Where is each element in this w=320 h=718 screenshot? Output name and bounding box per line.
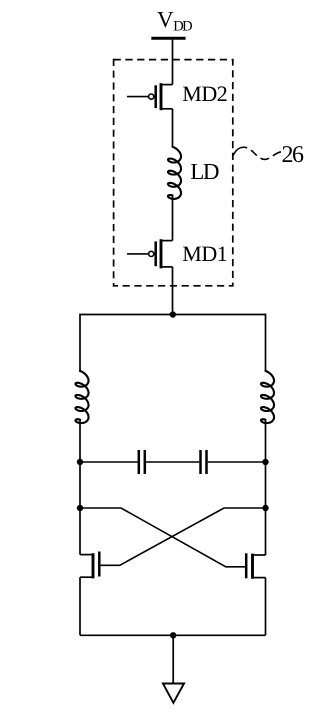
svg-text:LD: LD — [190, 159, 219, 184]
power supply bar VDD — [151, 37, 185, 40]
transistor MD1 (PMOS) — [127, 239, 173, 268]
ground — [163, 684, 184, 703]
wire MD1 drain to node A — [172, 267, 174, 315]
inductor L1 (left) — [76, 371, 89, 423]
svg-text:V: V — [157, 7, 174, 32]
wire top rail — [80, 314, 266, 316]
node left cap rail — [77, 459, 83, 465]
svg-text:26: 26 — [282, 142, 305, 168]
wire cap rail right segment — [208, 461, 266, 463]
wire MD2 drain to LD — [172, 109, 174, 147]
wire VDD to MD2 source — [172, 38, 174, 84]
wire left branch middle — [79, 420, 81, 555]
leader squiggle to label 26 — [233, 147, 281, 159]
capacitor C1 — [139, 450, 145, 474]
wire right branch lower — [265, 578, 267, 636]
node left cross rail — [77, 505, 83, 511]
wire left branch upper — [79, 314, 81, 372]
inductor L2 (right) — [261, 371, 274, 423]
transistor M2 (right NMOS) — [246, 553, 265, 579]
dashed box 26 — [114, 60, 233, 286]
label MD1 — [182, 241, 227, 266]
node A junction dot — [170, 311, 176, 317]
svg-text:MD2: MD2 — [182, 81, 227, 106]
label LD — [190, 159, 219, 184]
wire bottom rail — [80, 634, 266, 636]
inductor LD — [168, 147, 181, 199]
wire cross coupling right drain to left gate — [101, 508, 266, 565]
label MD2 — [182, 81, 227, 106]
wire cap rail left segment — [80, 461, 138, 463]
wire right branch upper — [265, 314, 267, 372]
wire right branch middle — [265, 420, 267, 555]
svg-text:DD: DD — [173, 19, 192, 35]
supply label VDD — [157, 7, 192, 35]
node bottom center — [170, 632, 176, 638]
wire cross coupling left drain to right gate — [80, 508, 246, 567]
transistor M1 (left NMOS) — [80, 552, 99, 579]
wire LD to MD1 source — [172, 195, 174, 240]
node right cap rail — [262, 459, 268, 465]
node right cross rail — [262, 505, 268, 511]
wire left branch lower — [79, 577, 81, 635]
svg-text:MD1: MD1 — [182, 241, 227, 266]
wire to ground — [172, 635, 174, 683]
label 26 — [282, 142, 305, 168]
wire cap rail center segment — [146, 461, 199, 463]
transistor MD2 (PMOS) — [127, 83, 173, 110]
capacitor C2 — [201, 450, 207, 474]
